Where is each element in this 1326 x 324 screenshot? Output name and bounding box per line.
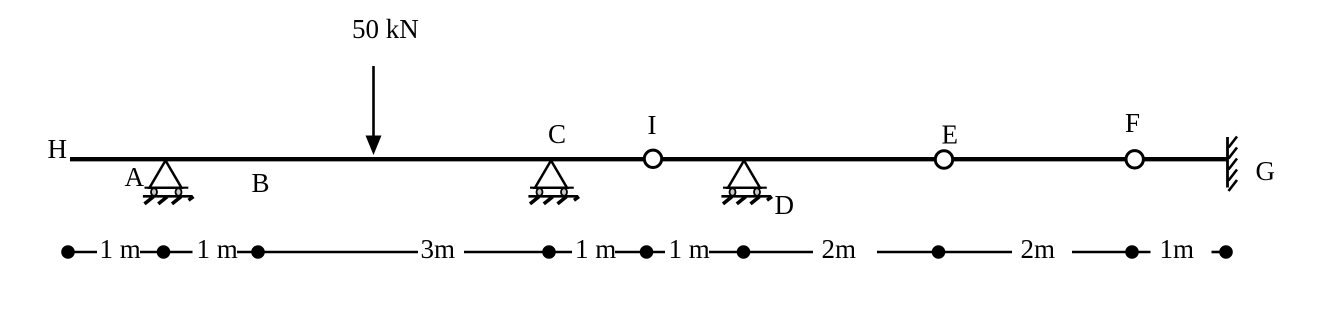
svg-text:2m: 2m (1021, 234, 1056, 264)
svg-text:3m: 3m (421, 234, 456, 264)
svg-text:1 m: 1 m (575, 234, 616, 264)
support A (roller) (143, 161, 194, 204)
beam H to G (70, 157, 1227, 161)
dimension dot at C (542, 245, 556, 259)
svg-text:B: B (252, 168, 270, 198)
dimension dot at I (640, 245, 654, 259)
svg-text:C: C (548, 119, 566, 149)
svg-text:I: I (648, 110, 657, 140)
dimension dot at D (737, 245, 751, 259)
svg-text:50 kN: 50 kN (352, 14, 419, 44)
svg-text:E: E (942, 120, 959, 150)
dimension dot at E (932, 245, 946, 259)
load arrow (366, 66, 382, 155)
dimension dot at A (157, 245, 171, 259)
dimension line segment I-D (647, 251, 744, 254)
dimension line segment B-C (258, 251, 549, 254)
hinge I (644, 150, 661, 167)
dimension line segment C-I (549, 251, 647, 254)
svg-text:1 m: 1 m (100, 234, 141, 264)
hinge F (1126, 151, 1143, 168)
dimension line segment D-E (744, 251, 939, 254)
dimension line segment H-A (68, 251, 164, 254)
svg-text:H: H (48, 134, 68, 164)
dimension dot at G (1219, 245, 1233, 259)
svg-text:A: A (125, 162, 145, 192)
support D (roller) (721, 161, 772, 204)
svg-text:D: D (775, 190, 795, 220)
svg-text:F: F (1125, 108, 1140, 138)
dimension line segment A-B (164, 251, 259, 254)
svg-text:2m: 2m (822, 234, 857, 264)
svg-text:1 m: 1 m (669, 234, 710, 264)
dimension dot at H (61, 245, 75, 259)
support C (roller) (528, 161, 579, 204)
hinge E (935, 151, 952, 168)
svg-text:1m: 1m (1160, 234, 1195, 264)
dimension dot at B (251, 245, 265, 259)
svg-text:1 m: 1 m (197, 234, 238, 264)
dimension dot at F (1125, 245, 1139, 259)
dimension line segment F-G (1132, 251, 1221, 254)
svg-text:G: G (1256, 156, 1276, 186)
fixed support wall G (1228, 137, 1238, 192)
dimension line segment E-F (939, 251, 1133, 254)
